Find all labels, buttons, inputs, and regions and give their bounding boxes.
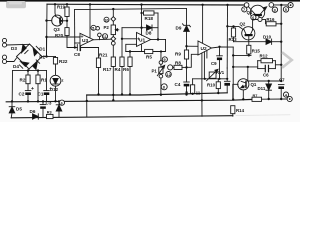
P2 bottom diamond [111, 36, 116, 41]
svg-text:10: 10 [104, 18, 108, 22]
wire U3 output [93, 38, 111, 41]
node R13 top [232, 25, 234, 27]
Q3 base bar [59, 18, 61, 24]
svg-text:P2: P2 [104, 25, 110, 30]
Q4 base bar [253, 14, 262, 16]
node D8 left [140, 27, 142, 29]
connector circle beside 5 [96, 27, 100, 31]
wire Q2 collector up to connector [253, 19, 258, 29]
ref circle 6b [251, 15, 256, 20]
resistor R12 [258, 60, 261, 62]
wire R4 to mid bus [121, 67, 123, 95]
resistor R18 [141, 5, 143, 13]
resistor R16 [266, 22, 276, 26]
capacitor C2 [25, 90, 31, 92]
node U2 pin bus [201, 99, 203, 101]
ref circle 5 [91, 25, 96, 30]
svg-text:7: 7 [243, 8, 245, 12]
ref circle at P2 top [104, 17, 109, 22]
diode D5 [11, 101, 13, 106]
node rail junction x55 [54, 3, 56, 5]
ref circle 9 [162, 57, 167, 62]
wire U2 output [212, 47, 234, 48]
Q4 base stub [259, 16, 260, 17]
terminal AC input 1a [2, 38, 6, 42]
capacitor C1 [46, 71, 48, 91]
node second rail at P2 [112, 8, 114, 10]
node R6 bus [129, 93, 131, 95]
node R6 feedback tap [129, 50, 131, 52]
wire R21 to mid bus [98, 68, 100, 95]
wire Q3 emitter to divider [63, 20, 68, 22]
wire bridge - output row [13, 69, 30, 71]
ref circle 4 [283, 92, 288, 97]
transistor Q4 [250, 5, 264, 19]
svg-text:5: 5 [285, 8, 287, 12]
node D5 bus [11, 100, 13, 102]
wire P2 to R17 [112, 45, 114, 57]
node Q1 bus [242, 98, 244, 100]
wire connector to R16 [262, 19, 266, 23]
Q2 collector inner wire [244, 30, 246, 35]
connector circle Q2 collector [258, 17, 262, 21]
wire bottom frame [11, 116, 233, 118]
wire second rail corner drop to U3 inverting [74, 10, 76, 48]
node C7 bus [280, 98, 282, 100]
wire R10 to bus [217, 89, 219, 93]
svg-text:D4: D4 [13, 64, 19, 69]
svg-text:C9: C9 [211, 61, 217, 66]
Q4 collector wire [248, 7, 254, 14]
U1 plus mark [138, 38, 140, 40]
wire Q1 bottom to bus [242, 90, 244, 99]
node rail junction x141.5 [140, 3, 142, 5]
connector circle P1 bottom [159, 74, 163, 78]
svg-text:D9: D9 [176, 25, 182, 30]
svg-text:C4: C4 [175, 82, 181, 87]
resistor R17 [111, 57, 115, 67]
transistor Q2 [242, 27, 255, 40]
svg-text:U1: U1 [139, 38, 145, 44]
wire R20 down to C8 row [67, 36, 77, 48]
svg-text:R18: R18 [145, 16, 154, 21]
node R21 bus [97, 93, 99, 95]
plus mark C1 [50, 87, 52, 89]
node R15 join [248, 54, 250, 56]
svg-text:R: R [185, 91, 188, 96]
svg-text:D8: D8 [146, 31, 152, 36]
wire U2 lower input loop [187, 54, 199, 67]
LED D12 [50, 75, 61, 86]
svg-text:Q3: Q3 [54, 27, 61, 32]
wire rail drop to Q2 base row [227, 26, 243, 30]
node bridge plus [45, 55, 47, 57]
node D13 bus [58, 100, 60, 102]
connector circle rail right of Q4 [269, 3, 274, 8]
connector circle P1 top [159, 61, 163, 65]
wire bridge + output to R22 and x46 riser [42, 56, 56, 58]
node C9 column top [218, 46, 220, 48]
U2 pin stub third [206, 51, 208, 59]
node rail junction x202.6 [201, 4, 203, 6]
svg-text:C6: C6 [263, 73, 269, 78]
P1 wiper arrow [157, 66, 164, 76]
wire rail2 drop to U3 inverting [75, 42, 80, 44]
wire C8 to R21 [80, 47, 98, 49]
svg-text:R9: R9 [175, 52, 181, 57]
node C4 bus [185, 93, 187, 95]
wire Q1 left to R14 column [233, 84, 238, 99]
capacitor C3 [42, 101, 44, 104]
U1 lower pin stub [141, 45, 143, 52]
svg-text:R19: R19 [57, 5, 66, 10]
top page edge bar [0, 0, 300, 2]
diode D3 [22, 45, 27, 53]
capacitor C7 [278, 84, 284, 86]
wire to U1 noninverting [122, 38, 137, 40]
node base tap [45, 19, 47, 21]
terminal circle R8 left [168, 65, 173, 70]
wire lower bus [6, 99, 252, 101]
node U2 inverting tap [185, 45, 187, 47]
node D11 top [268, 80, 270, 82]
node D10 bus [280, 41, 282, 43]
potentiometer P2 chain [112, 9, 114, 16]
node R4 bus [121, 93, 123, 95]
wire D12 to bus [55, 86, 57, 101]
node rail junction x90 [89, 3, 91, 5]
wire x233 drop from U2 out [232, 47, 234, 100]
svg-text:C3: C3 [46, 101, 52, 106]
svg-text:C8: C8 [74, 52, 80, 57]
node C7 top [280, 80, 282, 82]
node D11 bus [268, 98, 270, 100]
resistor R6 [129, 52, 131, 58]
svg-text:11: 11 [103, 35, 107, 39]
R12 C6 left node [257, 61, 259, 69]
P2 wiper arrow [116, 29, 119, 31]
svg-text:D10: D10 [263, 34, 272, 39]
node x233 bus [232, 98, 234, 100]
U2 pin drop to frame [201, 100, 203, 116]
connector circle rail left of Q4 [244, 3, 249, 8]
resistor R1 [37, 71, 39, 75]
Q3 emitter arrow [60, 20, 62, 22]
svg-text:RV1: RV1 [216, 70, 225, 75]
wire feedback drop to P1 [160, 52, 162, 61]
wire R13 to D10 row [233, 37, 235, 42]
svg-text:R10: R10 [207, 83, 216, 88]
R12 C6 right node [274, 61, 276, 69]
resistor R19 [66, 4, 68, 7]
resistor R14 [231, 106, 235, 114]
resistor R15 [247, 45, 251, 54]
trimmer RV1 [209, 72, 216, 78]
svg-text:R21: R21 [99, 53, 108, 58]
node mid bus drop [86, 100, 88, 102]
wire AC bottom to bridge [7, 58, 17, 62]
connector stub U3 out [99, 37, 101, 40]
svg-text:D11: D11 [258, 86, 266, 91]
svg-text:R14: R14 [236, 108, 245, 113]
P2 connector circle [111, 41, 115, 45]
wire D8 node to U1 power pin [141, 28, 143, 36]
ref circle 8 [272, 7, 277, 12]
node rail2 drop join [74, 46, 76, 48]
wire mid ground bus [87, 93, 228, 95]
wire Q3 collector to rail [54, 4, 57, 16]
resistor R10 [217, 79, 219, 82]
bridge rectifier diamond [17, 44, 43, 69]
wire rail drop x227 [226, 5, 228, 68]
resistor R21 [98, 48, 100, 59]
wire R2 to C2 [27, 84, 29, 91]
ref circle 11 [102, 34, 107, 39]
wire R6 to mid bus [129, 67, 131, 95]
wire U1 plus column x122 [122, 27, 142, 29]
resistor R11 [192, 79, 194, 85]
diode D13 [58, 101, 60, 104]
U2 pin drop RV1 [203, 52, 205, 79]
svg-text:R12: R12 [260, 54, 269, 59]
wire D11 row [248, 80, 281, 82]
resistor R3 in frame wire [47, 114, 54, 118]
wire R14 to frame [232, 114, 234, 117]
svg-text:U2: U2 [201, 46, 207, 52]
wire D8 R18 right node down [157, 13, 159, 40]
diode D8 [141, 13, 143, 28]
node C3 bus [42, 100, 44, 102]
diode D6 [33, 114, 39, 119]
P2 body [111, 25, 115, 35]
node U1 plus tap [121, 38, 123, 40]
node R17 bus [112, 94, 114, 96]
wire rail1 drop to U2 top pin [202, 5, 204, 44]
P2 top diamond [111, 17, 116, 22]
capacitor C8 [76, 45, 78, 51]
Q2 base bar [245, 34, 253, 36]
svg-text:D2: D2 [39, 55, 45, 60]
node P1 bus [160, 94, 162, 96]
svg-text:C1: C1 [38, 92, 44, 97]
wire R19 to R20 [66, 17, 68, 28]
svg-text:R22: R22 [59, 59, 68, 64]
svg-text:R5: R5 [146, 55, 152, 60]
terminal AC input 2a [2, 55, 6, 59]
Q4 emitter wire [261, 7, 267, 14]
node R16 bus [280, 23, 282, 25]
wire C5 column upper [226, 68, 228, 81]
svg-text:D12: D12 [50, 87, 59, 92]
capacitor C9 [219, 47, 221, 56]
node output D8 join [157, 38, 159, 40]
wire R17 to mid bus [112, 67, 114, 101]
svg-text:D3: D3 [11, 46, 17, 51]
svg-text:P1: P1 [152, 68, 158, 73]
resistor R20 [65, 28, 69, 36]
svg-text:R6: R6 [123, 67, 129, 72]
wire R15 bottom to y55 [248, 54, 250, 55]
svg-text:6: 6 [61, 101, 63, 105]
terminal AC input 2b [2, 59, 6, 63]
wire R9 to R8 node [186, 59, 188, 82]
resistor R13 [233, 26, 235, 28]
wire Q1 base drop [247, 67, 249, 81]
resistor R2 [27, 71, 29, 75]
svg-text:D5: D5 [16, 107, 22, 112]
svg-text:8: 8 [163, 86, 165, 90]
wire C9 column lower [219, 60, 221, 79]
wire y55 row [233, 54, 251, 56]
wire top rail right segment [274, 4, 288, 6]
potentiometer P1 [160, 64, 162, 67]
svg-text:R2: R2 [20, 78, 26, 83]
diode D4 [21, 62, 29, 67]
resistor R5 [145, 49, 153, 53]
Q3 collector [56, 16, 61, 19]
node x233 y67 [232, 66, 234, 68]
op-amp U2 [198, 41, 212, 55]
node bridge minus R1 [37, 69, 39, 71]
wire D10 row [234, 41, 267, 43]
node RV1 row pin join [204, 78, 206, 80]
wire row left drop to bus [11, 71, 13, 102]
resistor R7 in bus [252, 97, 262, 101]
wire feedback right leg [153, 40, 166, 52]
resistor R8 [173, 66, 174, 68]
transistor Q1 [238, 79, 249, 90]
ref circle near D13 [59, 100, 64, 105]
svg-text:5: 5 [92, 27, 94, 31]
wire top rail V+ [47, 3, 244, 6]
capacitor C4 [184, 81, 190, 83]
U2 pin drop long [201, 53, 203, 100]
node rail junction x67 [66, 3, 68, 5]
faint frame continuation [236, 114, 290, 117]
svg-text:11: 11 [196, 91, 201, 96]
wire feedback left leg [126, 51, 145, 53]
wire AC top to bridge [7, 43, 30, 46]
node R1 bus [37, 100, 39, 102]
svg-text:9: 9 [164, 58, 166, 62]
ref circle near bus [161, 84, 167, 90]
U3 plus mark [81, 36, 83, 38]
resistor R4 [120, 57, 124, 67]
node C9 col row join [218, 78, 220, 80]
node RV1 row join C5 [226, 78, 228, 80]
diode D10 [266, 39, 272, 44]
capacitor C5 [224, 80, 230, 82]
ref circle 12b [166, 72, 172, 78]
wire P1 to mid bus [160, 78, 162, 95]
svg-text:Q4: Q4 [247, 10, 253, 15]
node R10 bus [217, 92, 219, 94]
svg-text:D1: D1 [39, 47, 45, 52]
svg-text:8: 8 [274, 8, 276, 12]
Q1 base bar [245, 81, 247, 87]
diode D11 [268, 81, 270, 84]
node x227 Q2 base branch [226, 25, 228, 27]
plus mark C2 [32, 87, 34, 89]
wire left loop from rail corner down [46, 4, 49, 56]
terminal plus output top right [288, 3, 293, 8]
transistor Q3 [52, 15, 63, 26]
wire frame drop x87 [86, 95, 88, 117]
wire RV1 row [193, 78, 228, 80]
wire R12 row from x233 [233, 66, 258, 68]
wire right bus lower [280, 65, 282, 81]
ref circle 7 [242, 7, 247, 12]
wire U1 output [151, 39, 166, 41]
svg-text:R17: R17 [103, 67, 112, 72]
wire U3 noninverting to left loop [47, 37, 81, 57]
node R8 join [185, 66, 187, 68]
node R18 left [140, 12, 142, 14]
wire second rail drop x186.5 [186, 8, 188, 25]
wire lower bus right of R7 [262, 98, 288, 100]
wire second rail [75, 8, 187, 9]
op-amp U1 [137, 33, 151, 47]
node rail junction x281 [280, 4, 282, 6]
terminal AC input 1b [2, 43, 6, 47]
svg-text:Q2: Q2 [240, 21, 246, 26]
node emitter join [66, 20, 68, 22]
node Q1 base tap [247, 66, 249, 68]
svg-text:12: 12 [167, 73, 171, 77]
svg-text:C2: C2 [19, 92, 25, 97]
node R12 bus [280, 64, 282, 66]
node C2 bus [27, 100, 29, 102]
node feedback P1 tap [160, 50, 162, 52]
Q1 collector inner wire [241, 81, 246, 83]
svg-text:C7: C7 [279, 78, 285, 83]
resistor R22 [55, 57, 57, 58]
node rail junction x227.5 [226, 4, 228, 6]
node U3 plus loop [45, 36, 47, 38]
wire R1 to bus [37, 84, 39, 102]
Q1 emitter arrow [241, 86, 246, 88]
wire U1 inverting from feedback [126, 44, 137, 51]
wire to U2 input [187, 45, 199, 47]
node D12 bus [54, 100, 56, 102]
wire R16 to right bus [276, 23, 281, 25]
diode D2 [33, 61, 38, 69]
svg-text:z: z [62, 78, 64, 83]
right bus vertical [280, 5, 282, 65]
node x233 y55 [232, 54, 234, 56]
node bridge minus R2 [27, 69, 29, 71]
svg-text:R8: R8 [175, 61, 181, 66]
svg-text:U3: U3 [82, 38, 88, 44]
wire Q2 emitter stub to R15 [248, 36, 250, 45]
op-amp U3 [80, 33, 93, 46]
ref circle 5b [283, 7, 288, 12]
wire Q3 base to left loop [47, 20, 52, 22]
svg-text:Q1: Q1 [251, 82, 257, 87]
zener D9 [183, 24, 191, 27]
node R11 bus [191, 93, 193, 95]
svg-text:R4: R4 [115, 67, 121, 72]
watermark chevron [283, 53, 292, 67]
wire U3 power pin drop [89, 4, 91, 37]
svg-text:D6: D6 [30, 109, 36, 114]
Q2 emitter inner wire [251, 30, 253, 34]
wire R22 to D12 [55, 64, 57, 75]
grey censored label box [6, 1, 26, 8]
svg-text:R16: R16 [266, 17, 275, 22]
capacitor C6 [258, 68, 266, 70]
terminal output bottom right [287, 96, 292, 101]
